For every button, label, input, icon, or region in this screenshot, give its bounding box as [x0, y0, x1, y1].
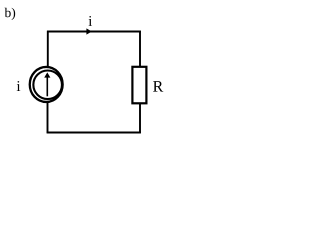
- label R: [153, 81, 163, 91]
- wire left vertical lower: [47, 103, 49, 134]
- wire left vertical upper: [47, 31, 49, 67]
- current source arrow head: [44, 72, 50, 77]
- wire bottom horizontal: [47, 132, 141, 134]
- wire top horizontal: [47, 31, 141, 33]
- label i (source): [17, 81, 21, 91]
- current source U1 inner circle: [33, 71, 62, 100]
- current source arrow shaft: [46, 77, 48, 97]
- resistor R: [132, 67, 146, 104]
- label i (top wire current): [89, 16, 93, 26]
- current source U1 outer circle: [30, 67, 63, 102]
- label b): [5, 8, 11, 17]
- wire right vertical upper: [139, 31, 141, 67]
- current arrow on top wire: [86, 28, 92, 34]
- wire right vertical lower: [139, 104, 141, 133]
